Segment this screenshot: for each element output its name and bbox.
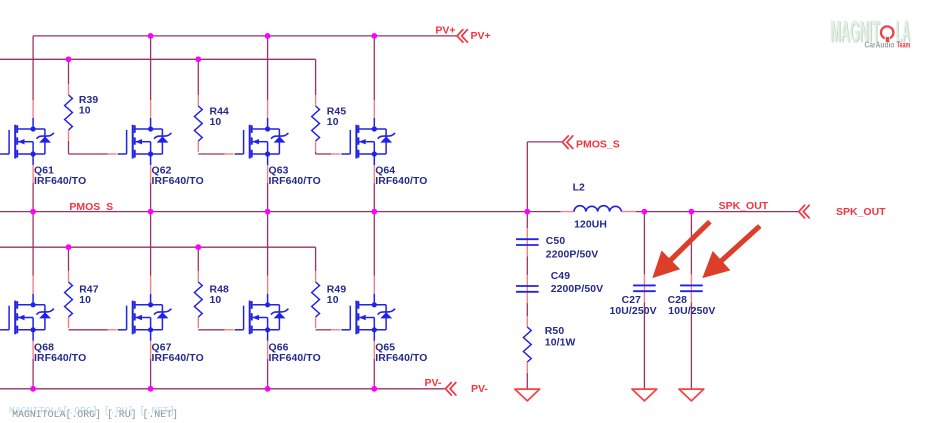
wire gate net Q67: [69, 329, 108, 331]
svg-text:Q64: Q64: [375, 166, 395, 177]
svg-text:R39: R39: [79, 95, 99, 106]
svg-text:CarAudio: CarAudio: [865, 41, 895, 50]
svg-text:C28: C28: [668, 295, 688, 306]
ground under R50: [515, 389, 540, 401]
transistor Q67: [118, 294, 172, 341]
junction C28 top: [689, 209, 695, 215]
wire gate net Q65: [316, 329, 332, 331]
wire R45 top feed: [315, 59, 317, 95]
svg-text:R48: R48: [210, 285, 230, 296]
svg-text:PMOS_S: PMOS_S: [69, 201, 113, 213]
pin Q67 drain: [150, 276, 152, 294]
connector PV-: [446, 383, 456, 396]
wire gate net Q64: [315, 152, 317, 154]
wire PMOS_S flag riser: [526, 142, 528, 212]
svg-text:Q67: Q67: [152, 343, 172, 354]
annotation arrow to C27: [666, 222, 710, 265]
junction C27 top: [642, 209, 648, 215]
transistor Q68: [0, 294, 54, 341]
transistor Q63: [235, 118, 289, 165]
svg-text:IRF640/TO: IRF640/TO: [34, 353, 86, 364]
svg-text:Q66: Q66: [269, 343, 289, 354]
svg-text:R45: R45: [327, 107, 347, 118]
wire Q61 drain to PV+ rail: [32, 36, 34, 100]
svg-text:R47: R47: [79, 285, 99, 296]
wire Q66 drain riser: [267, 212, 269, 276]
resistor R50: [523, 316, 531, 373]
pin Q64 gate: [331, 153, 340, 155]
svg-text:L2: L2: [573, 183, 585, 194]
svg-text:IRF640/TO: IRF640/TO: [269, 176, 321, 187]
svg-text:IRF640/TO: IRF640/TO: [34, 176, 86, 187]
pin Q66 source: [267, 341, 269, 359]
svg-text:C50: C50: [546, 236, 566, 247]
wire second bottom rail: [0, 246, 316, 248]
pin Q67 gate: [108, 329, 117, 331]
transistor Q61: [0, 118, 54, 165]
wire R47 top feed: [68, 247, 70, 271]
svg-text:Team: Team: [897, 41, 911, 50]
pin Q68 drain: [32, 276, 34, 294]
resistor R45: [312, 95, 320, 152]
wire Q66 source to PV- rail: [267, 359, 269, 389]
resistor R39: [65, 84, 73, 141]
svg-text:2200P/50V: 2200P/50V: [551, 284, 604, 295]
svg-text:PV-: PV-: [424, 377, 441, 389]
ground under C28: [679, 389, 704, 401]
pin Q65 source: [373, 341, 375, 359]
junction on PV+ rail: [265, 33, 271, 39]
wire C49 to R50: [526, 303, 528, 316]
wire PMOS_S rail: [0, 211, 561, 213]
wire C28 to ground: [690, 302, 692, 389]
wire second top rail: [0, 58, 316, 60]
svg-text:SPK_OUT: SPK_OUT: [719, 200, 769, 212]
junction on PV- rail: [30, 386, 36, 392]
svg-text:MAGNITOLA[.ORG] [.RU] [.NET]: MAGNITOLA[.ORG] [.RU] [.NET]: [12, 409, 178, 421]
resistor R47: [65, 271, 73, 328]
capacitor C28: [680, 274, 703, 302]
svg-text:10/1W: 10/1W: [545, 338, 576, 349]
junction R48 top: [195, 244, 201, 250]
wire gate net Q66: [198, 329, 224, 331]
wire Q62 source to PMOS_S rail: [150, 183, 152, 212]
wire PV+ rail: [33, 35, 457, 37]
wire R49 top feed: [315, 247, 317, 271]
junction on PV+ rail: [148, 33, 154, 39]
svg-text:IRF640/TO: IRF640/TO: [375, 176, 427, 187]
capacitor C50: [516, 228, 539, 256]
wire C27 to ground: [643, 302, 645, 389]
wire C28 top: [690, 212, 692, 275]
svg-text:R44: R44: [210, 107, 230, 118]
wire Q65 source to PV- rail: [373, 359, 375, 389]
wire Q62 drain riser: [150, 36, 152, 100]
wire Q61 source to PMOS_S rail: [32, 183, 34, 212]
junction on PV- rail: [371, 386, 377, 392]
pin Q67 source: [150, 341, 152, 359]
svg-text:C27: C27: [622, 295, 642, 306]
connector PMOS_S: [562, 136, 572, 149]
pin Q66 gate: [225, 329, 234, 331]
svg-text:10: 10: [327, 295, 339, 306]
pin Q61 drain: [32, 100, 34, 118]
wire R39 top feed: [68, 59, 70, 84]
wire Q63 source to PMOS_S rail: [267, 183, 269, 212]
svg-text:IRF640/TO: IRF640/TO: [269, 353, 321, 364]
wire Q65 drain riser: [373, 212, 375, 276]
svg-text:10: 10: [210, 295, 222, 306]
transistor Q66: [235, 294, 289, 341]
wire R39 bottom to gate wire: [68, 141, 70, 154]
svg-text:C49: C49: [551, 271, 571, 282]
capacitor C27: [633, 274, 656, 302]
junction on PMOS_S rail: [371, 209, 377, 215]
svg-text:R50: R50: [545, 326, 565, 337]
pin Q66 drain: [267, 276, 269, 294]
junction on PV- rail: [265, 386, 271, 392]
pin Q62 gate: [108, 153, 117, 155]
wire C50 to C49: [526, 256, 528, 275]
resistor R49: [312, 271, 320, 328]
wire R44 top feed: [197, 59, 199, 95]
wire C27 top: [643, 212, 645, 275]
pin Q63 gate: [225, 153, 234, 155]
transistor Q64: [341, 118, 395, 165]
svg-text:10: 10: [79, 295, 91, 306]
svg-text:120UH: 120UH: [574, 219, 607, 230]
connector PV+: [457, 30, 467, 43]
svg-text:10: 10: [79, 106, 91, 117]
pin Q65 gate: [331, 329, 340, 331]
wire Q67 source to PV- rail: [150, 359, 152, 389]
wire PMOS_S flag horizontal: [527, 141, 562, 143]
svg-text:IRF640/TO: IRF640/TO: [152, 176, 204, 187]
svg-text:Q62: Q62: [152, 166, 172, 177]
annotation arrow to C28: [717, 226, 760, 265]
svg-text:Q68: Q68: [34, 343, 54, 354]
pin Q68 source: [32, 341, 34, 359]
pin Q61 source: [32, 165, 34, 183]
wire Q67 drain riser: [150, 212, 152, 276]
wire R50 to ground: [526, 373, 528, 389]
transistor Q65: [341, 294, 395, 341]
pin Q65 drain: [373, 276, 375, 294]
wire PV- rail: [0, 388, 445, 390]
wire L2 to SPK_OUT: [636, 211, 799, 213]
inductor L2: [561, 211, 636, 213]
svg-text:10: 10: [327, 117, 339, 128]
junction PMOS_S flag: [524, 209, 530, 215]
svg-text:Q63: Q63: [269, 166, 289, 177]
junction on PMOS_S rail: [148, 209, 154, 215]
junction R44 top: [195, 56, 201, 62]
wire Q64 source to PMOS_S rail: [373, 183, 375, 212]
pin Q63 drain: [267, 100, 269, 118]
wire PMOS_S to C50: [526, 212, 528, 229]
svg-text:PV+: PV+: [471, 30, 491, 42]
wire Q63 drain riser: [267, 36, 269, 100]
wire Q68 source to PV- rail: [32, 359, 34, 389]
wire Q68 drain riser: [32, 212, 34, 276]
transistor Q62: [118, 118, 172, 165]
svg-text:10U/250V: 10U/250V: [668, 306, 715, 317]
pin Q62 drain: [150, 100, 152, 118]
svg-text:Q61: Q61: [34, 166, 54, 177]
wire R48 top feed: [197, 247, 199, 271]
svg-text:IRF640/TO: IRF640/TO: [375, 353, 427, 364]
svg-text:10U/250V: 10U/250V: [610, 306, 657, 317]
svg-text:2200P/50V: 2200P/50V: [546, 250, 599, 261]
svg-text:PV-: PV-: [471, 383, 488, 395]
pin Q63 source: [267, 165, 269, 183]
svg-text:10: 10: [210, 117, 222, 128]
pin Q64 source: [373, 165, 375, 183]
pin Q64 drain: [373, 100, 375, 118]
resistor R48: [194, 271, 202, 328]
resistor R44: [194, 95, 202, 152]
junction on PMOS_S rail: [265, 209, 271, 215]
connector SPK_OUT: [799, 205, 809, 218]
svg-text:PV+: PV+: [435, 25, 455, 37]
junction on PV- rail: [148, 386, 154, 392]
junction R39 top: [66, 56, 72, 62]
wire Q64 drain riser: [373, 36, 375, 100]
svg-text:IRF640/TO: IRF640/TO: [152, 353, 204, 364]
svg-text:SPK_OUT: SPK_OUT: [836, 206, 886, 218]
wire gate net Q63: [198, 153, 224, 155]
wire gate net Q62: [69, 153, 108, 155]
junction R47 top: [66, 244, 72, 250]
svg-text:R49: R49: [327, 285, 347, 296]
svg-text:PMOS_S: PMOS_S: [576, 139, 620, 151]
ground under C27: [632, 389, 657, 401]
junction on PV+ rail: [371, 33, 377, 39]
capacitor C49: [516, 275, 539, 303]
svg-text:Q65: Q65: [375, 343, 395, 354]
junction on PMOS_S rail: [30, 209, 36, 215]
pin Q62 source: [150, 165, 152, 183]
